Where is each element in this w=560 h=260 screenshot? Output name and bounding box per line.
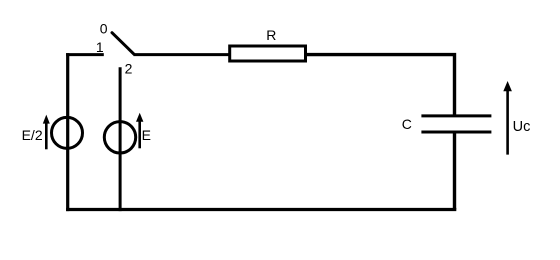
wire: left vertical branch (E/2 branch) [66,53,69,211]
capacitor C top plate [421,114,491,117]
wire: capacitor C to bottom wire [453,132,456,210]
capacitor C bottom plate [421,131,491,134]
svg-text:0: 0 [100,21,108,37]
arrow for source E/2 [43,115,50,150]
svg-text:2: 2 [125,61,133,77]
svg-text:Uc: Uc [513,119,531,135]
switch SW arm (position 0) [112,33,134,55]
svg-text:R: R [266,27,276,43]
svg-text:1: 1 [96,39,104,55]
wire: middle vertical branch (E branch) to contact 2 [119,67,122,211]
svg-text:E/2: E/2 [22,127,43,143]
wire: contact-1 stub from left branch [66,53,104,56]
arrow for Uc (capacitor voltage) [503,81,512,155]
resistor R [230,46,306,61]
source E (circle symbol) [104,122,135,153]
wire: bottom return wire [66,208,456,211]
arrow for source E [136,113,143,149]
svg-text:C: C [402,116,412,132]
svg-text:E: E [142,127,151,143]
wire: resistor R to top-right corner and down to capacitor [306,55,455,116]
source E/2 (circle symbol) [52,117,83,148]
wire: switch to resistor R [134,53,231,56]
